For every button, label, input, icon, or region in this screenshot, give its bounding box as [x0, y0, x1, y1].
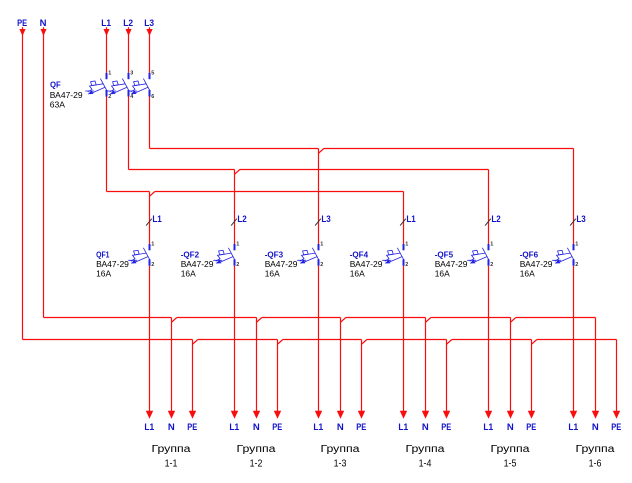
svg-text:L3: L3	[576, 214, 585, 225]
net tick L1 on QF1 drop	[146, 219, 152, 226]
net tick L2 on QF5 drop	[485, 219, 491, 226]
svg-text:2: 2	[236, 262, 239, 268]
svg-text:2: 2	[575, 262, 578, 268]
svg-text:1: 1	[236, 242, 239, 248]
wire N main vertical	[43, 31, 45, 318]
circuit breaker QF4	[403, 244, 405, 250]
wire PE bus segment 2	[283, 339, 362, 341]
wire L2 vertical above QF	[128, 31, 130, 73]
svg-text:1-6: 1-6	[589, 459, 602, 470]
svg-text:ВА47-29: ВА47-29	[181, 259, 214, 269]
wire QF5 output vertical	[488, 266, 490, 412]
arrow group 4 L1 output	[400, 411, 407, 419]
svg-text:Группа: Группа	[321, 444, 361, 455]
junction N tap jog group 5	[511, 318, 516, 323]
svg-text:1-4: 1-4	[419, 459, 432, 470]
arrow group 4 N output	[422, 411, 429, 419]
svg-text:16А: 16А	[96, 269, 111, 279]
wire N bus segment 0	[44, 317, 172, 319]
node L2 incoming arrow	[128, 27, 130, 31]
svg-text:1-2: 1-2	[250, 459, 263, 470]
svg-text:2: 2	[151, 262, 154, 268]
wire PE bus segment 3	[367, 339, 447, 341]
wire PE drop group 2	[277, 340, 279, 412]
svg-text:ВА47-29: ВА47-29	[96, 259, 129, 269]
circuit breaker QF2	[234, 244, 236, 250]
junction N tap jog group 3	[341, 318, 346, 323]
svg-text:PE: PE	[611, 422, 621, 433]
wire PE drop group 5	[531, 340, 533, 412]
svg-text:ВА47-29: ВА47-29	[435, 259, 468, 269]
wire N drop group 4	[425, 318, 427, 412]
arrow group 3 N output	[337, 411, 344, 419]
arrow group 2 L1 output	[231, 411, 238, 419]
svg-text:2: 2	[490, 262, 493, 268]
svg-text:16А: 16А	[435, 269, 450, 279]
svg-text:1: 1	[320, 242, 323, 248]
svg-text:-QF6: -QF6	[520, 249, 539, 259]
svg-text:L1: L1	[229, 422, 239, 433]
circuit breaker QF6	[573, 244, 575, 250]
svg-text:16А: 16А	[350, 269, 365, 279]
junction N tap jog group 4	[426, 318, 431, 323]
wire QF4 output vertical	[403, 266, 405, 412]
svg-text:PE: PE	[526, 422, 536, 433]
svg-text:PE: PE	[272, 422, 282, 433]
wire PE drop group 4	[446, 340, 448, 412]
node L3 incoming arrow	[149, 27, 151, 31]
node L1 incoming arrow	[106, 27, 108, 31]
svg-text:-QF4: -QF4	[350, 249, 369, 259]
wire PE bus segment 5	[537, 339, 617, 341]
node N incoming arrow	[43, 27, 45, 31]
svg-text:L1: L1	[568, 422, 578, 433]
svg-text:L2: L2	[491, 214, 500, 225]
wire N drop group 5	[510, 318, 512, 412]
arrow group 2 N output	[253, 411, 260, 419]
svg-text:N: N	[507, 422, 514, 433]
svg-text:3: 3	[130, 71, 133, 77]
net tick L1 on QF4 drop	[400, 219, 406, 226]
circuit breaker QF pole 1 (L1)	[106, 73, 108, 79]
svg-text:L2: L2	[237, 214, 246, 225]
circuit breaker QF3	[318, 244, 320, 250]
wire L1 vertical below QF	[106, 97, 108, 192]
svg-text:PE: PE	[356, 422, 366, 433]
wire PE drop group 1	[192, 340, 194, 412]
svg-text:L1: L1	[483, 422, 493, 433]
wire N bus segment 1	[177, 317, 257, 319]
junction PE tap jog group 3	[362, 340, 367, 345]
wire QF1 output vertical	[149, 266, 151, 412]
circuit breaker QF1	[149, 244, 151, 250]
svg-text:63А: 63А	[50, 99, 66, 109]
svg-text:Группа: Группа	[491, 444, 531, 455]
junction PE tap jog group 5	[532, 340, 537, 345]
svg-text:N: N	[168, 422, 175, 433]
svg-text:ВА47-29: ВА47-29	[520, 259, 553, 269]
wire N drop group 2	[256, 318, 258, 412]
junction N tap jog group 1	[172, 318, 177, 323]
net tick L2 on QF2 drop	[231, 219, 237, 226]
arrow group 3 L1 output	[315, 411, 322, 419]
arrow group 4 PE output	[443, 411, 450, 419]
wire PE bus segment 1	[198, 339, 278, 341]
junction N tap jog group 2	[257, 318, 262, 323]
wire QF6 output vertical	[573, 266, 575, 412]
svg-text:L1: L1	[313, 422, 323, 433]
wire N bus segment 4	[431, 317, 511, 319]
svg-text:Группа: Группа	[406, 444, 446, 455]
svg-text:-QF3: -QF3	[265, 249, 284, 259]
svg-text:-QF5: -QF5	[435, 249, 454, 259]
arrow group 5 PE output	[528, 411, 535, 419]
arrow group 1 L1 output	[146, 411, 153, 419]
arrow group 2 PE output	[274, 411, 281, 419]
wire drop to QF4	[403, 192, 405, 244]
wire drop to QF1	[149, 192, 151, 244]
wire L2 vertical below QF	[128, 97, 130, 170]
svg-text:16А: 16А	[520, 269, 535, 279]
svg-text:L1: L1	[398, 422, 408, 433]
junction jog QF3 tap	[319, 149, 324, 154]
wire QF2 output vertical	[234, 266, 236, 412]
node PE incoming arrow	[22, 27, 24, 31]
wire drop to QF5	[488, 170, 490, 244]
svg-text:-QF2: -QF2	[181, 249, 200, 259]
svg-text:N: N	[592, 422, 599, 433]
wire PE bus segment 4	[452, 339, 532, 341]
svg-text:2: 2	[320, 262, 323, 268]
wire L3 vertical below QF	[149, 97, 151, 149]
svg-text:L1: L1	[406, 214, 416, 225]
svg-text:QF: QF	[50, 79, 61, 89]
circuit breaker QF5	[488, 244, 490, 250]
svg-text:1-3: 1-3	[334, 459, 347, 470]
wire drop to QF6	[573, 149, 575, 244]
svg-text:Группа: Группа	[576, 444, 616, 455]
wire PE drop group 3	[361, 340, 363, 412]
arrow group 1 N output	[168, 411, 175, 419]
arrow group 6 PE output	[613, 411, 620, 419]
svg-text:1-1: 1-1	[165, 459, 178, 470]
junction PE tap jog group 2	[278, 340, 283, 345]
junction PE tap jog group 4	[447, 340, 452, 345]
junction jog QF1 tap	[150, 192, 155, 197]
arrow group 6 L1 output	[570, 411, 577, 419]
wire L2 feeder bus left segment	[129, 169, 235, 171]
svg-text:16А: 16А	[181, 269, 196, 279]
svg-text:1: 1	[490, 242, 493, 248]
wire drop to QF3	[318, 149, 320, 244]
svg-text:PE: PE	[441, 422, 451, 433]
svg-text:5: 5	[151, 71, 154, 77]
svg-text:L3: L3	[321, 214, 330, 225]
svg-text:2: 2	[108, 94, 111, 100]
svg-text:N: N	[337, 422, 344, 433]
svg-text:1: 1	[151, 242, 154, 248]
net tick L3 on QF3 drop	[315, 219, 321, 226]
svg-text:L1: L1	[144, 422, 154, 433]
net tick L3 on QF6 drop	[570, 219, 576, 226]
wire PE drop group 6	[616, 340, 618, 412]
svg-text:6: 6	[151, 94, 154, 100]
arrow group 5 L1 output	[485, 411, 492, 419]
svg-text:1: 1	[575, 242, 578, 248]
wire L3 feeder bus left segment	[150, 148, 319, 150]
svg-text:1: 1	[108, 71, 111, 77]
svg-text:N: N	[253, 422, 260, 433]
svg-text:N: N	[422, 422, 429, 433]
svg-text:QF1: QF1	[96, 249, 110, 259]
wire L2 feeder bus right segment	[240, 169, 489, 171]
wire N drop group 1	[171, 318, 173, 412]
wire N bus segment 3	[346, 317, 426, 319]
arrow group 3 PE output	[358, 411, 365, 419]
svg-text:16А: 16А	[265, 269, 280, 279]
wire N bus segment 2	[262, 317, 341, 319]
wire N drop group 3	[340, 318, 342, 412]
svg-text:ВА47-29: ВА47-29	[265, 259, 298, 269]
svg-text:L1: L1	[152, 214, 162, 225]
wire drop to QF2	[234, 170, 236, 244]
svg-text:1-5: 1-5	[504, 459, 517, 470]
wire PE bus segment 0	[23, 339, 193, 341]
svg-text:Группа: Группа	[152, 444, 192, 455]
svg-text:1: 1	[405, 242, 408, 248]
wire PE main vertical	[22, 31, 24, 340]
wire QF3 output vertical	[318, 266, 320, 412]
wire L1 feeder bus right segment	[155, 191, 404, 193]
wire L1 vertical above QF	[106, 31, 108, 73]
svg-text:Группа: Группа	[237, 444, 277, 455]
arrow group 6 N output	[592, 411, 599, 419]
arrow group 1 PE output	[189, 411, 196, 419]
svg-text:2: 2	[405, 262, 408, 268]
svg-text:ВА47-29: ВА47-29	[350, 259, 383, 269]
junction jog QF2 tap	[235, 170, 240, 175]
wire L3 feeder bus right segment	[324, 148, 574, 150]
wire L3 vertical above QF	[149, 31, 151, 73]
circuit breaker QF pole 2 (L2)	[128, 73, 130, 79]
wire L1 feeder bus left segment	[107, 191, 150, 193]
junction PE tap jog group 1	[193, 340, 198, 345]
arrow group 5 N output	[507, 411, 514, 419]
circuit breaker QF pole 3 (L3)	[149, 73, 151, 79]
wire N drop group 6	[595, 318, 597, 412]
wire N bus segment 5	[516, 317, 596, 319]
svg-text:PE: PE	[187, 422, 197, 433]
